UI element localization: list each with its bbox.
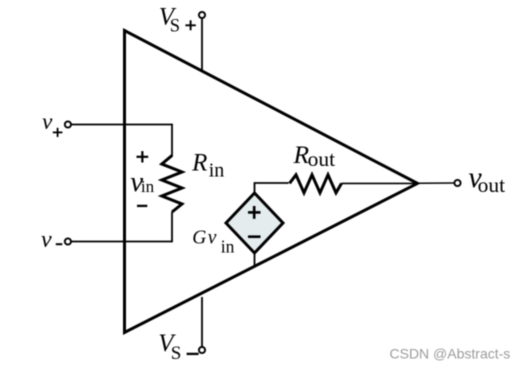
- label Gvin: [192, 228, 234, 257]
- resistor Rout: [290, 175, 342, 193]
- svg-text:out: out: [478, 173, 506, 197]
- wire output lead: [418, 182, 455, 184]
- svg-text:v: v: [41, 227, 52, 253]
- minus mark inside source: [248, 235, 261, 238]
- svg-text:in: in: [141, 177, 155, 196]
- svg-text:in: in: [221, 237, 235, 257]
- svg-text:R: R: [191, 150, 207, 177]
- label VS-: [158, 330, 198, 364]
- terminal VS-: [199, 347, 205, 353]
- svg-text:CSDN @Abstract-s: CSDN @Abstract-s: [390, 346, 511, 362]
- label vout: [468, 161, 505, 197]
- terminal v+ input: [65, 121, 71, 127]
- label vin: [130, 166, 154, 198]
- svg-text:v: v: [208, 228, 217, 249]
- wire Rout to output vertex: [342, 182, 418, 184]
- svg-text:S: S: [171, 343, 182, 364]
- plus mark inside source: [248, 206, 261, 219]
- wire VS- supply lead: [201, 297, 203, 347]
- label v+: [42, 109, 62, 137]
- wire VS+ supply lead: [201, 18, 203, 71]
- label v-: [41, 227, 62, 253]
- wire v- to Rin bottom: [71, 212, 172, 242]
- wire v+ to Rin top: [71, 125, 172, 157]
- terminal vout: [454, 180, 460, 186]
- label VS+: [159, 4, 196, 37]
- label Rin: [191, 150, 224, 182]
- terminal v- input: [65, 238, 71, 244]
- label + of vin: [137, 151, 149, 162]
- op-amp triangle body U1: [125, 31, 418, 333]
- svg-text:S: S: [170, 16, 180, 36]
- label - of vin: [137, 205, 147, 207]
- terminal VS+: [199, 12, 205, 18]
- svg-text:out: out: [308, 147, 336, 171]
- resistor Rin: [162, 156, 182, 213]
- svg-text:v: v: [42, 109, 53, 134]
- dependent source Gvin diamond: [226, 193, 283, 253]
- svg-text:in: in: [209, 159, 225, 181]
- wire source top to Rout: [255, 183, 289, 193]
- wire source bottom: [254, 253, 256, 267]
- svg-text:G: G: [192, 228, 206, 249]
- label Rout: [293, 140, 336, 171]
